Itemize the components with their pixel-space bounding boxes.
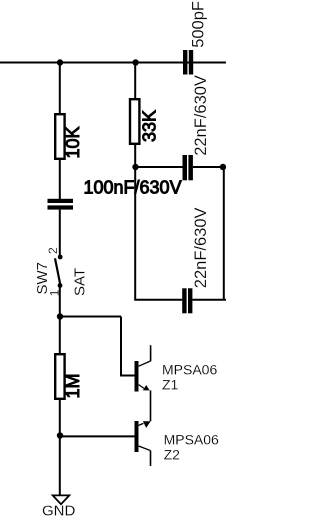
wire 33K to node xyxy=(134,144,136,167)
node junction right edge xyxy=(220,164,226,170)
Z2 emitter diagonal xyxy=(139,446,151,451)
wire upper cap to right node xyxy=(193,166,226,168)
svg-text:2: 2 xyxy=(46,247,60,254)
svg-text:MPSA06: MPSA06 xyxy=(164,432,219,448)
svg-text:Z1: Z1 xyxy=(162,377,179,393)
capacitor C 22nF/630V upper (horizontal) xyxy=(183,155,193,180)
Z2 collector arrow xyxy=(143,421,151,428)
wire switch pin 1 to node xyxy=(59,286,61,317)
Z2 base bar xyxy=(135,421,139,452)
wire 10K to capacitor xyxy=(59,160,61,199)
wire left branch: bus to R 10K xyxy=(59,63,61,114)
Z2 emitter stub xyxy=(150,451,152,467)
svg-text:22nF/630V: 22nF/630V xyxy=(192,207,210,288)
Z1 emitter diagonal xyxy=(139,385,144,389)
svg-text:MPSA06: MPSA06 xyxy=(162,361,217,377)
blade xyxy=(55,258,60,284)
ground GND symbol xyxy=(53,495,70,504)
Z1 emitter wire down xyxy=(150,390,152,421)
node junction switch / 1M / base feed xyxy=(57,313,63,319)
wire horizontal to lower 22nF cap xyxy=(134,299,182,301)
resistor 1M xyxy=(55,354,64,399)
wire 1M to bottom node xyxy=(59,399,61,435)
svg-text:100nF/630V: 100nF/630V xyxy=(84,178,182,198)
Z1 base bar xyxy=(135,361,139,392)
wire node to upper 22nF cap xyxy=(136,166,183,168)
wire top horizontal bus xyxy=(0,62,226,64)
wire node to Q1 base (horizontal) xyxy=(60,316,121,318)
node junction 33K / C22nF upper / drop wire xyxy=(132,164,138,170)
wire vertical down to base level xyxy=(120,317,122,376)
svg-text:10K: 10K xyxy=(63,126,83,158)
transistor Z2 MPSA06 xyxy=(135,421,151,466)
wire node to Z2 base (horizontal) xyxy=(60,435,135,437)
switch SW7 (SPST, open) xyxy=(55,255,63,288)
resistor 33K xyxy=(130,99,139,144)
wire node to resistor 1M xyxy=(59,317,61,354)
resistor 10K xyxy=(55,114,64,159)
node junction right branch / top bus xyxy=(132,59,138,65)
wire lower cap to right edge xyxy=(192,299,226,301)
transistor Z1 MPSA06 xyxy=(135,345,151,421)
Z1 emitter arrow xyxy=(143,385,150,390)
capacitor C 100nF/630V (vertical, left branch) xyxy=(48,199,74,210)
node junction left branch / top bus xyxy=(57,59,63,65)
svg-text:33K: 33K xyxy=(140,110,160,142)
svg-text:SW7: SW7 xyxy=(34,262,51,295)
Z1 collector stub xyxy=(150,345,152,361)
wire right branch: bus to R 33K xyxy=(134,63,136,99)
svg-text:Z2: Z2 xyxy=(164,446,181,462)
pin 1 contact xyxy=(58,283,63,288)
svg-text:GND: GND xyxy=(42,503,76,520)
svg-text:SAT: SAT xyxy=(71,268,88,296)
svg-text:500pF: 500pF xyxy=(190,1,208,48)
svg-text:22nF/630V: 22nF/630V xyxy=(192,75,210,156)
pin 2 contact xyxy=(58,255,63,260)
Z2 collector diagonal xyxy=(139,423,144,425)
wire right edge vertical xyxy=(223,167,225,300)
Z1 collector diagonal xyxy=(139,361,151,366)
wire node to ground xyxy=(59,436,61,495)
capacitor C 500pF (horizontal, on top bus) xyxy=(183,50,193,75)
wire drop from 33K node down xyxy=(134,167,136,300)
svg-text:1M: 1M xyxy=(63,373,83,398)
node junction 1M / GND / Z2 base xyxy=(57,432,63,438)
wire capacitor to switch pin 2 xyxy=(59,210,61,255)
wire into Z1 base xyxy=(120,375,135,377)
capacitor C 22nF/630V lower (horizontal) xyxy=(182,288,192,313)
